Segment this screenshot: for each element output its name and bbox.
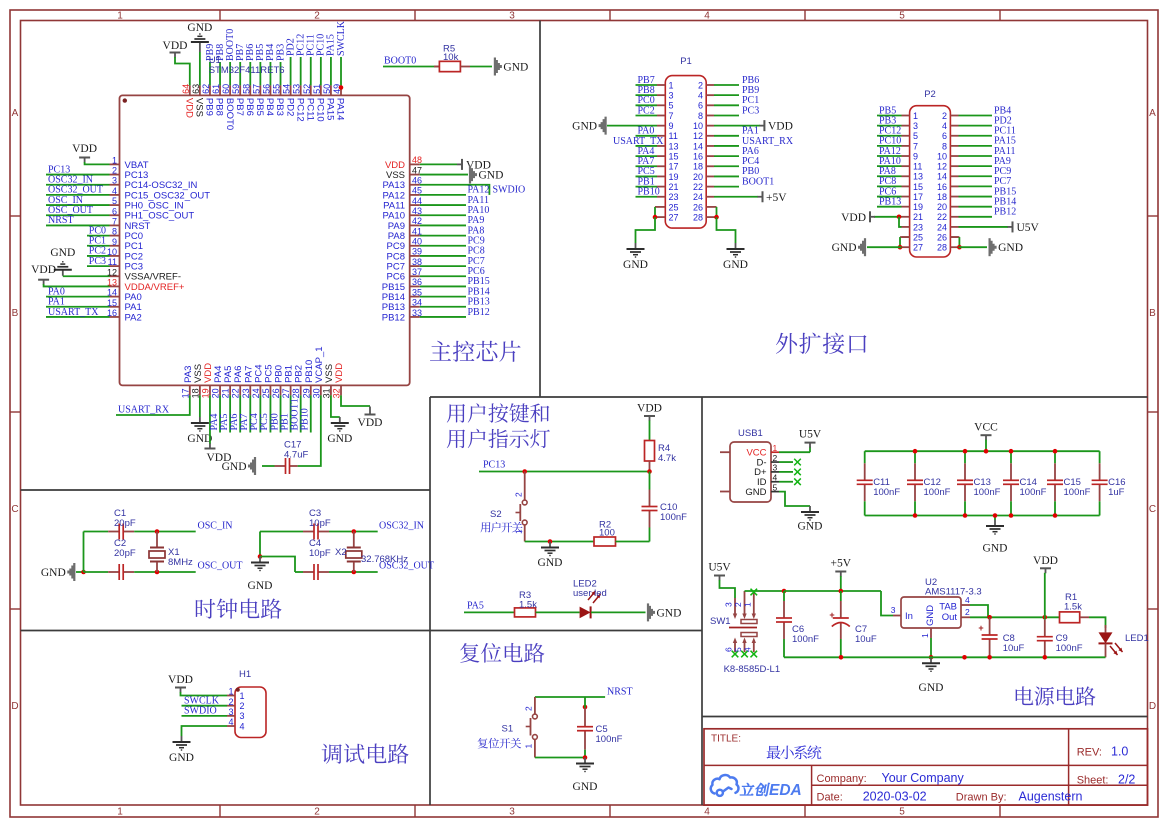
- ground GND below P1 right: [735, 243, 737, 249]
- svg-text:2/2: 2/2: [1118, 772, 1135, 786]
- title user keys line2 用户指示灯: [447, 429, 550, 448]
- connector P1 pin 1: [657, 84, 665, 86]
- connector USB1 pin 3 D+: [771, 471, 779, 473]
- svg-text:25: 25: [261, 388, 271, 398]
- wire net PB5 P2 pin 1: [877, 115, 902, 117]
- connector P2 pin 6: [950, 135, 958, 137]
- wire net PC12 P2 pin 5: [877, 135, 902, 137]
- connector USB1 body: [730, 442, 771, 502]
- svg-text:19: 19: [669, 172, 679, 182]
- svg-text:25: 25: [669, 202, 679, 212]
- capacitor C11 100nF: [864, 451, 866, 463]
- mcu pin 13 VDDA/VREF+: [110, 285, 120, 287]
- power VDD P2 pin 21: [874, 216, 902, 218]
- svg-text:3: 3: [112, 176, 117, 186]
- svg-text:GND: GND: [919, 682, 944, 694]
- regulator U2 AMS1117-3.3 body: [893, 615, 901, 617]
- svg-text:6: 6: [698, 101, 703, 111]
- svg-text:100: 100: [599, 528, 615, 539]
- title user keys line1 用户按键和: [447, 403, 550, 422]
- svg-text:100nF: 100nF: [1056, 643, 1083, 654]
- mcu pin 14 PA0: [110, 296, 120, 298]
- title clock 时钟电路: [196, 598, 282, 618]
- svg-text:Date:: Date:: [817, 791, 843, 803]
- svg-text:10pF: 10pF: [309, 548, 331, 559]
- ground GND clock right: [259, 557, 261, 563]
- wire cap bank to GND: [994, 516, 996, 521]
- svg-text:20pF: 20pF: [114, 518, 136, 529]
- title reset 复位电路: [460, 643, 544, 663]
- svg-text:PB13: PB13: [879, 196, 901, 207]
- connector H1 pin 1: [227, 695, 235, 697]
- svg-text:2: 2: [524, 706, 534, 711]
- svg-text:USART_TX: USART_TX: [48, 307, 99, 318]
- svg-text:4: 4: [965, 595, 970, 605]
- ground GND flag at C17: [254, 457, 256, 475]
- wire net PA9 U1 pin 42: [420, 224, 466, 226]
- svg-text:17: 17: [669, 162, 679, 172]
- wire net PA11 U1 pin 44: [420, 204, 466, 206]
- wire net PA0 to U1 pin 14: [46, 296, 110, 298]
- wire net PB7 P1 pin 1: [636, 84, 658, 86]
- svg-text:4.7k: 4.7k: [658, 453, 676, 464]
- title expansion 外扩接口: [776, 333, 867, 354]
- svg-text:B: B: [1149, 308, 1156, 319]
- ground GND below USB1: [809, 506, 811, 512]
- svg-text:2: 2: [112, 166, 117, 176]
- svg-text:BOOT1: BOOT1: [742, 176, 774, 187]
- wire net PB15 P2 pin 18: [959, 196, 993, 198]
- svg-text:GND: GND: [745, 487, 766, 498]
- wire net PB12 U1 pin 33: [420, 316, 466, 318]
- capacitor C16 1uF: [1099, 451, 1101, 463]
- svg-text:14: 14: [937, 172, 947, 182]
- svg-text:18: 18: [190, 388, 200, 398]
- led LED1: [1105, 625, 1107, 632]
- svg-text:U5V: U5V: [799, 429, 822, 441]
- connector P2 pin 15: [902, 185, 910, 187]
- svg-text:24: 24: [937, 222, 947, 232]
- section box power bottom: [702, 716, 1148, 718]
- connector USB1 pin 5 GND: [771, 491, 779, 493]
- svg-text:VDD: VDD: [768, 121, 793, 133]
- mcu pin 7 NRST: [110, 224, 120, 226]
- svg-text:27: 27: [281, 388, 291, 398]
- svg-text:20pF: 20pF: [114, 548, 136, 559]
- capacitor C17 4.7uF: [262, 465, 275, 467]
- svg-text:GND: GND: [50, 247, 75, 259]
- svg-text:PA2: PA2: [125, 312, 142, 323]
- svg-text:4: 4: [112, 186, 117, 196]
- svg-text:11: 11: [913, 162, 922, 172]
- wire net PB8 P1 pin 3: [636, 94, 658, 96]
- svg-text:VDD: VDD: [334, 363, 345, 383]
- connector P1 pin 11: [657, 135, 665, 137]
- svg-text:8: 8: [942, 141, 947, 151]
- svg-text:23: 23: [241, 388, 251, 398]
- svg-text:C: C: [1149, 504, 1156, 515]
- logo LCEDA cloud: [711, 775, 739, 796]
- svg-text:1uF: 1uF: [1108, 487, 1125, 498]
- connector P1 pin 10: [706, 125, 714, 127]
- svg-text:9: 9: [669, 121, 674, 131]
- capacitor C4 10pF: [295, 571, 303, 573]
- svg-text:4: 4: [704, 807, 710, 818]
- mcu pin 52 PC11: [310, 85, 312, 95]
- capacitor C5 100nF: [583, 705, 588, 710]
- ground GND flag at R5: [494, 58, 496, 76]
- connector USB1 pin 1 VCC: [771, 451, 779, 453]
- svg-text:25: 25: [913, 232, 923, 242]
- wire net PC9 U1 pin 40: [420, 245, 466, 247]
- mcu pin 1 VBAT: [110, 163, 120, 165]
- svg-text:32: 32: [332, 388, 342, 398]
- mcu pin 22 PA6: [239, 385, 241, 395]
- connector P2 pin 18: [950, 196, 958, 198]
- svg-text:1: 1: [524, 744, 534, 749]
- svg-text:EDA: EDA: [769, 782, 802, 799]
- ground GND at U1 pin 18: [199, 395, 201, 417]
- svg-text:3: 3: [913, 121, 918, 131]
- svg-text:4: 4: [228, 717, 233, 727]
- svg-text:1.5k: 1.5k: [519, 600, 537, 611]
- ground GND flag P1 pin 9: [607, 125, 657, 127]
- svg-text:100nF: 100nF: [873, 487, 900, 498]
- connector P1 body: [665, 76, 706, 229]
- connector P1 pin 20: [706, 175, 714, 177]
- svg-text:user led: user led: [573, 588, 607, 599]
- svg-text:2: 2: [698, 80, 703, 90]
- wire net BOOT0 to R5: [383, 66, 439, 68]
- wire net PA8 U1 pin 41: [420, 235, 466, 237]
- label 复位开关: [478, 738, 521, 749]
- svg-text:3: 3: [773, 463, 778, 473]
- connector P2 pin 2: [950, 115, 958, 117]
- svg-text:1: 1: [240, 691, 245, 701]
- power VDD at U1 pin 19: [209, 395, 211, 444]
- svg-text:Your Company: Your Company: [882, 771, 965, 785]
- connector P2 pin 17: [902, 196, 910, 198]
- svg-text:20: 20: [937, 202, 947, 212]
- svg-text:17: 17: [913, 192, 923, 202]
- svg-text:Drawn By:: Drawn By:: [956, 791, 1007, 803]
- resistor R5 10k: [434, 66, 439, 68]
- wire net PC10 P2 pin 7: [877, 145, 902, 147]
- svg-text:OSC_IN: OSC_IN: [198, 521, 233, 532]
- wire net PC3 to U1 pin 11: [87, 265, 110, 267]
- svg-text:12: 12: [693, 131, 703, 141]
- svg-text:VSS: VSS: [194, 98, 205, 117]
- svg-text:100nF: 100nF: [974, 487, 1001, 498]
- connector P1 pin 13: [657, 145, 665, 147]
- section box main-chip/expansion divider: [539, 21, 541, 398]
- wire net PA5 to R3: [464, 611, 515, 613]
- regulator U2 pin 4 TAB wire: [961, 604, 970, 606]
- wire net NRST row: [535, 696, 605, 698]
- wire SW1 to +5V rail: [782, 589, 787, 594]
- svg-text:S2: S2: [490, 509, 502, 520]
- wire net PB5 U1 pin 57: [259, 62, 261, 85]
- wire net PB0 U1 pin 26: [280, 395, 282, 432]
- logo LCEDA text 立创EDA: [740, 783, 770, 796]
- capacitor C8 10uF polarized: [989, 616, 991, 619]
- power +5V P1 pin 24: [714, 196, 758, 198]
- svg-text:4: 4: [942, 121, 947, 131]
- mcu pin 25 PC5: [269, 385, 271, 395]
- svg-text:5: 5: [773, 482, 778, 492]
- ground GND flag clock left: [73, 563, 75, 581]
- svg-text:10uF: 10uF: [1003, 643, 1025, 654]
- svg-text:2: 2: [773, 453, 778, 463]
- connector P2 pin 19: [902, 206, 910, 208]
- wire net OSC32_OUT to U1 pin 4: [46, 194, 110, 196]
- wire net PB10 U1 pin 29: [310, 395, 312, 432]
- svg-text:8MHz: 8MHz: [168, 557, 193, 568]
- svg-text:1: 1: [117, 807, 123, 818]
- svg-text:TITLE:: TITLE:: [711, 734, 741, 745]
- mcu pin 40 PC9: [410, 245, 420, 247]
- svg-text:1: 1: [669, 80, 674, 90]
- connector P2 pin 16: [950, 185, 958, 187]
- wire net PC9 P2 pin 14: [959, 175, 993, 177]
- connector P1 pin 14: [706, 145, 714, 147]
- capacitor C14 100nF: [1010, 451, 1012, 463]
- led LED2 user led: [580, 607, 591, 619]
- connector P2 pin 21: [902, 216, 910, 218]
- svg-text:9: 9: [913, 151, 918, 161]
- wire net PC11 P2 pin 6: [959, 135, 993, 137]
- wire net PC8 P2 pin 15: [877, 185, 902, 187]
- svg-text:23: 23: [913, 222, 923, 232]
- svg-text:6: 6: [942, 131, 947, 141]
- wire net OSC_IN: [157, 531, 196, 533]
- section box vertical x430: [429, 397, 431, 805]
- svg-text:4.7uF: 4.7uF: [284, 450, 308, 461]
- wire net PA6 U1 pin 22: [239, 395, 241, 432]
- wire net PA9 P2 pin 12: [959, 165, 993, 167]
- wire P2 pins 26-28 to GND flag: [950, 236, 959, 238]
- capacitor C7 10uF polarized: [840, 591, 842, 601]
- wire net PA10 U1 pin 43: [420, 214, 466, 216]
- title block vertical divider REV column: [1068, 729, 1070, 805]
- ground GND flag P2 pin 27: [864, 238, 866, 256]
- svg-text:7: 7: [913, 141, 918, 151]
- regulator U2 pin 1 GND wire: [930, 628, 932, 638]
- mcu pin 62 PB9: [209, 85, 211, 95]
- mcu pin 41 PA8: [410, 235, 420, 237]
- wire net PC7 P2 pin 16: [959, 185, 993, 187]
- connector P2 pin 8: [950, 145, 958, 147]
- wire net PA1 to U1 pin 15: [46, 306, 110, 308]
- svg-text:3: 3: [228, 707, 233, 717]
- wire net BOOT1 P1 pin 22: [714, 186, 739, 188]
- svg-text:Out: Out: [942, 612, 958, 623]
- power U5V P2 pin 24: [959, 226, 1009, 228]
- svg-text:26: 26: [937, 232, 947, 242]
- wire clock left rail: [83, 532, 85, 573]
- cap bank top rail: [865, 450, 1100, 452]
- svg-text:PA5: PA5: [467, 601, 484, 612]
- wire net SWDIO H1 pin 3: [182, 715, 228, 717]
- wire net PB8 U1 pin 61: [219, 62, 221, 85]
- svg-text:S1: S1: [502, 724, 514, 735]
- svg-text:NRST: NRST: [607, 686, 633, 697]
- title block divider under title row: [704, 764, 1148, 766]
- wire net OSC32_IN: [354, 531, 378, 533]
- wire net PB10 P1 pin 23: [636, 196, 658, 198]
- svg-text:P2: P2: [924, 89, 936, 100]
- mcu pin 56 PB4: [269, 85, 271, 95]
- svg-text:PC12: PC12: [294, 98, 305, 122]
- power VDD P1 pin 10: [714, 125, 760, 127]
- title power 电源电路: [1016, 686, 1096, 705]
- svg-text:2: 2: [965, 607, 970, 617]
- svg-text:19: 19: [913, 202, 923, 212]
- mcu pin 18 VSS: [199, 385, 201, 395]
- svg-text:16: 16: [937, 182, 947, 192]
- wire net PB3 P2 pin 3: [877, 125, 902, 127]
- mcu pin 20 PA4: [219, 385, 221, 395]
- mcu pin 46 PA13: [410, 184, 420, 186]
- mcu pin 8 PC0: [110, 235, 120, 237]
- wire net PC13 row: [479, 471, 650, 473]
- wire net NRST to U1 pin 7: [46, 224, 110, 226]
- svg-text:GND: GND: [998, 242, 1023, 254]
- svg-text:P1: P1: [680, 56, 692, 67]
- resistor R2 100: [594, 537, 616, 546]
- svg-text:1: 1: [117, 10, 123, 21]
- connector P2 pin 22: [950, 216, 958, 218]
- wire R1 to LED1: [1089, 617, 1106, 628]
- connector H1 pin 2: [227, 705, 235, 707]
- svg-text:In: In: [905, 611, 913, 622]
- svg-text:+: +: [829, 610, 834, 620]
- svg-text:4: 4: [742, 647, 752, 652]
- svg-text:BOOT0: BOOT0: [224, 98, 235, 130]
- mcu pin 39 PC8: [410, 255, 420, 257]
- ground GND below P1 left: [635, 243, 637, 249]
- svg-text:BOOT0: BOOT0: [384, 56, 416, 67]
- ground GND at U1 pin 31: [331, 395, 340, 417]
- svg-text:VDD: VDD: [358, 417, 383, 429]
- connector P1 pin 18: [706, 165, 714, 167]
- svg-text:GND: GND: [723, 259, 748, 271]
- switch SW1 contacts and lever: [741, 620, 757, 624]
- svg-text:24: 24: [251, 388, 261, 398]
- mcu pin 38 PC7: [410, 265, 420, 267]
- mcu pin 57 PB5: [259, 85, 261, 95]
- svg-text:27: 27: [669, 212, 679, 222]
- svg-text:30: 30: [311, 388, 321, 398]
- connector P2 pin 1: [902, 115, 910, 117]
- svg-text:4: 4: [698, 91, 703, 101]
- svg-text:GND: GND: [798, 521, 823, 533]
- svg-text:15: 15: [669, 152, 679, 162]
- svg-text:VDD: VDD: [1033, 555, 1058, 567]
- svg-text:20: 20: [693, 172, 703, 182]
- ground GND reset: [584, 758, 586, 764]
- svg-text:Company:: Company:: [817, 773, 867, 785]
- svg-text:28: 28: [693, 212, 703, 222]
- wire net PC12 U1 pin 53: [300, 57, 302, 85]
- resistor R1 1.5k: [1060, 612, 1080, 623]
- svg-text:PC3: PC3: [742, 105, 759, 116]
- connector H1 pin 4: [227, 725, 235, 727]
- mcu pin 33 PB12: [410, 316, 420, 318]
- mcu pin 34 PB13: [410, 306, 420, 308]
- cap bank bottom rail: [865, 515, 1100, 517]
- mcu pin 54 PD2: [290, 85, 292, 95]
- switch S2 user key: [524, 472, 526, 501]
- section box horizontal divider y397: [430, 396, 1148, 398]
- wire net PB9 U1 pin 62: [209, 62, 211, 85]
- capacitor C15 100nF: [1054, 451, 1056, 463]
- svg-text:GND: GND: [538, 557, 563, 569]
- wire net PB14 U1 pin 35: [420, 296, 466, 298]
- svg-text:1: 1: [228, 687, 233, 697]
- svg-text:100nF: 100nF: [1020, 487, 1047, 498]
- wire net OSC32_OUT: [354, 571, 378, 573]
- svg-text:5: 5: [112, 196, 117, 206]
- svg-text:3: 3: [509, 807, 515, 818]
- connector P1 pin 16: [706, 155, 714, 157]
- wire net PC0 P1 pin 5: [636, 104, 658, 106]
- connector P1 pin 7: [657, 114, 665, 116]
- section box user/power divider x702: [701, 397, 703, 805]
- wire P1 pins 25-27 to GND: [655, 206, 665, 208]
- svg-text:2: 2: [514, 492, 524, 497]
- mcu pin 12 VSSA/VREF-: [110, 275, 120, 277]
- wire P2 pin 21 to pin 23: [899, 217, 902, 227]
- wire net PA11 P2 pin 10: [959, 155, 993, 157]
- svg-text:28: 28: [291, 388, 301, 398]
- wire net PD2 P2 pin 4: [959, 125, 993, 127]
- wire net PB3 U1 pin 55: [280, 62, 282, 85]
- svg-text:1: 1: [913, 111, 918, 121]
- wire net PA7 P1 pin 17: [636, 165, 658, 167]
- wire net PB13 P2 pin 19: [877, 206, 902, 208]
- connector P2 pin 12: [950, 165, 958, 167]
- svg-text:21: 21: [913, 212, 923, 222]
- svg-text:SWDIO: SWDIO: [493, 185, 526, 196]
- mcu pin 2 PC13: [110, 174, 120, 176]
- mcu pin 15 PA1: [110, 306, 120, 308]
- svg-text:2: 2: [942, 111, 947, 121]
- ground GND flag after LED2: [647, 603, 649, 621]
- capacitor C6 100nF: [783, 591, 785, 601]
- svg-text:Sheet:: Sheet:: [1077, 774, 1109, 786]
- mcu pin 42 PA9: [410, 224, 420, 226]
- svg-text:7: 7: [112, 216, 117, 226]
- connector P1 pin 6: [706, 104, 714, 106]
- mcu pin 28 PB2: [300, 385, 302, 395]
- svg-text:H1: H1: [239, 669, 251, 680]
- ground GND flag P2 pin 28: [988, 238, 990, 256]
- wire net OSC_OUT: [157, 571, 196, 573]
- svg-text:+: +: [978, 623, 983, 633]
- connector H1 body: [235, 687, 266, 738]
- connector P2 pin 24: [950, 226, 958, 228]
- power VDD at U1 pin 32: [341, 395, 370, 406]
- mcu pin 27 PB1: [290, 385, 292, 395]
- connector P1 pin 12: [706, 135, 714, 137]
- svg-text:32.768KHz: 32.768KHz: [361, 554, 408, 565]
- svg-text:GND: GND: [657, 607, 682, 619]
- mcu pin 3 PC14-OSC32_IN: [110, 184, 120, 186]
- title main chip 主控芯片: [430, 341, 521, 362]
- mcu pin 10 PC2: [110, 255, 120, 257]
- wire USB1 pin 5 to GND: [779, 492, 810, 506]
